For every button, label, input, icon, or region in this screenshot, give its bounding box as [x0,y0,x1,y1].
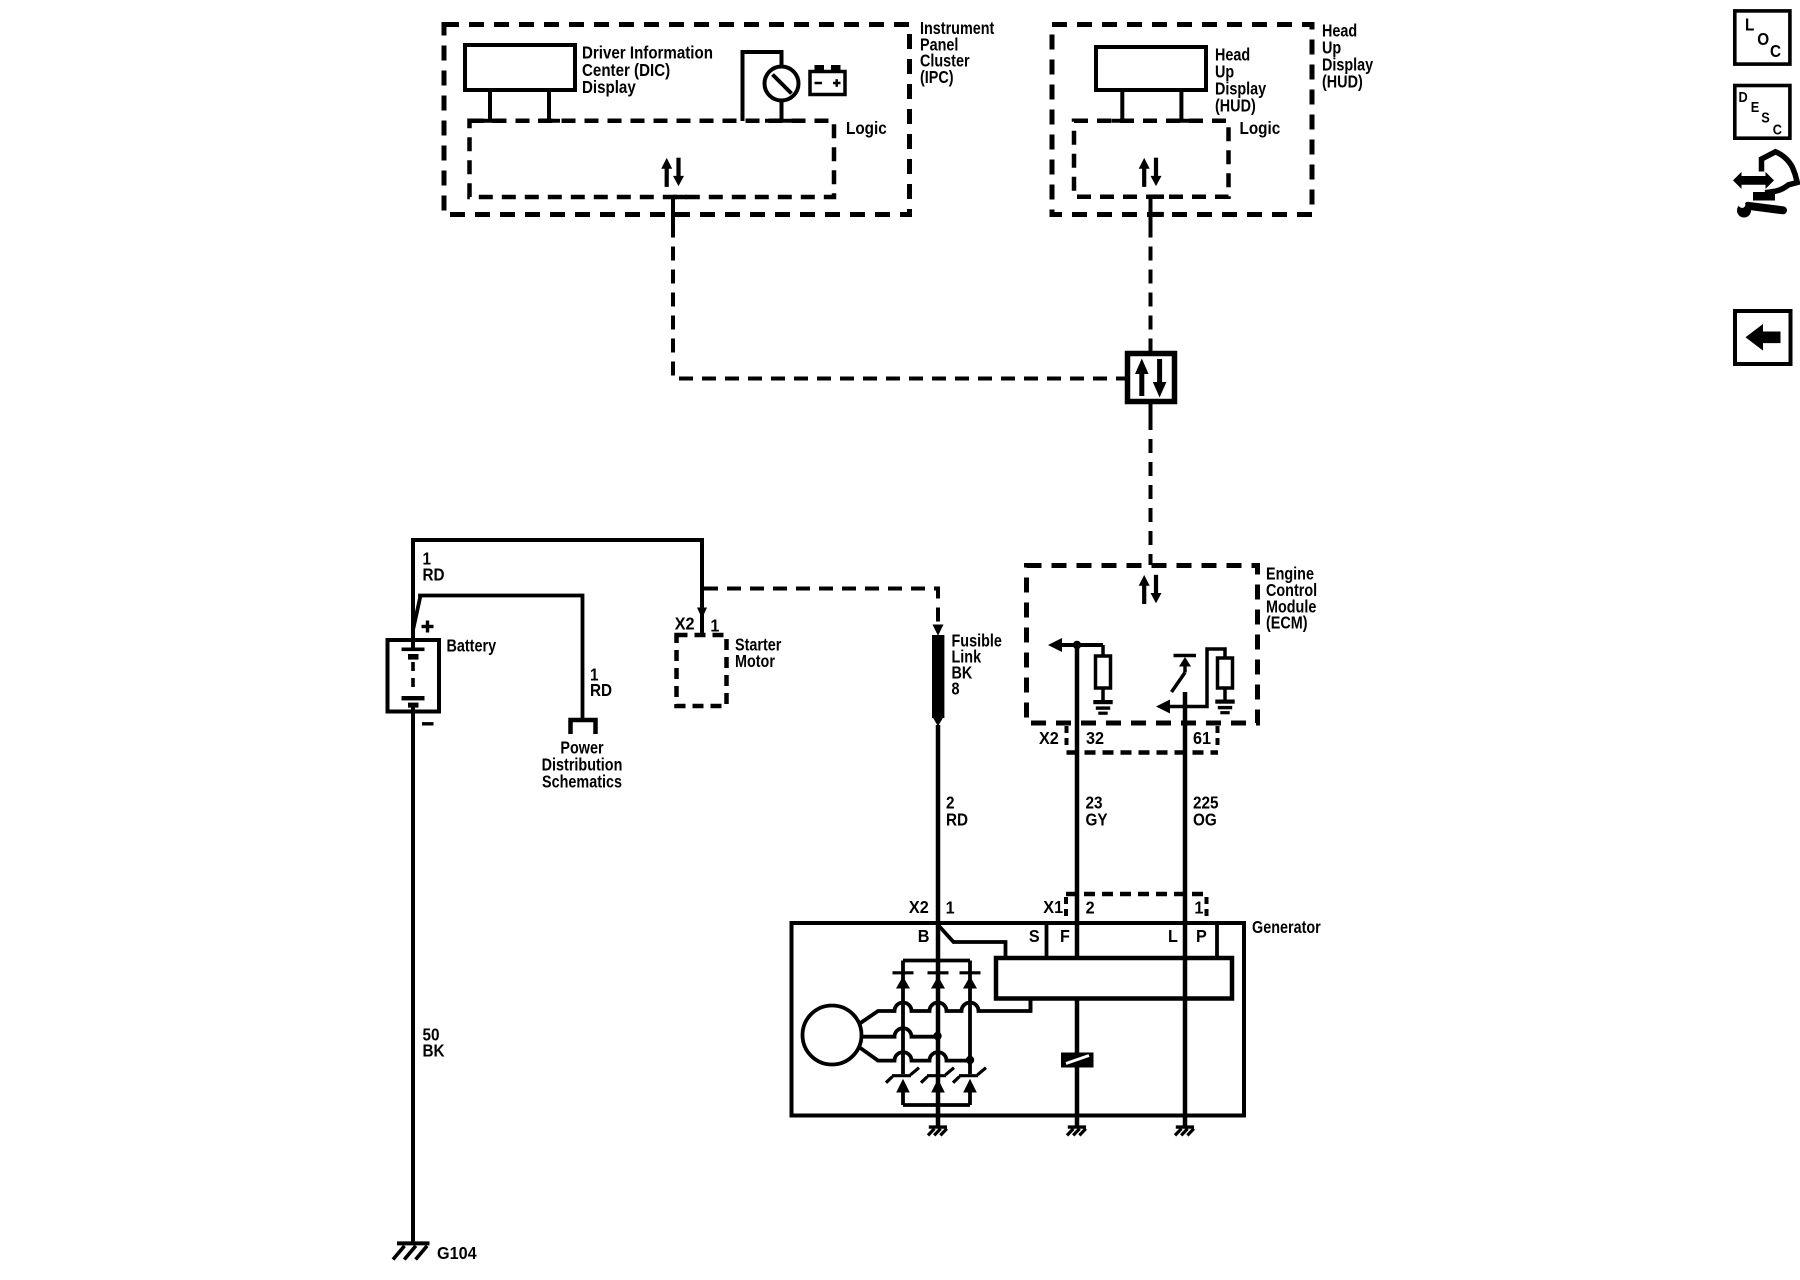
wire battery negative 50 BK to G104 [411,707,415,1242]
svg-text:C: C [1773,121,1782,138]
svg-text:X2: X2 [675,614,695,634]
label G104 [437,1243,477,1263]
wire B bus through rectifier [936,923,941,1116]
voltage regulator bar [996,958,1232,999]
svg-text:Motor: Motor [735,651,776,671]
label ECM [1266,564,1317,633]
wire battery positive to starter [411,540,702,633]
ECM internal: resistor R2 [1218,658,1233,688]
ground ECM right [1215,700,1234,704]
wire HUD leg 2 [1179,90,1183,121]
svg-text:Logic: Logic [1240,118,1281,138]
wire HUD leg 1 [1120,90,1124,121]
svg-text:1: 1 [710,616,719,636]
wire circuit 225 OG from ECM pin 61 [1183,692,1188,923]
generator terminal letters [918,926,930,946]
ground G104 [397,1241,430,1245]
ECM internal: right signal arrow [1156,700,1170,714]
stator winding phase 3 [859,1047,970,1061]
ground ECM left [1093,700,1112,704]
generator box [792,923,1245,1116]
wire data link to ECM (dashed) [1149,402,1153,417]
label DIC display [582,42,713,97]
stator circle [803,1006,862,1065]
generator terminal partitions [1045,923,1049,958]
ECM internal: left signal arrow [1048,638,1062,652]
ground generator case (B) [936,1116,941,1127]
module box ECM (Engine Control Module) [1027,566,1258,724]
DIC display [465,45,575,90]
ECM internal: driver switch [1174,654,1197,658]
rectifier bridge rails [903,959,970,963]
wire F terminal into regulator [1075,923,1080,958]
connector label X2 starter [675,614,695,634]
svg-text:G104: G104 [437,1243,477,1263]
svg-text:(ECM): (ECM) [1266,613,1308,633]
label HUD display [1215,45,1266,116]
svg-text:GY: GY [1086,809,1108,829]
zener diode D6 [959,1074,978,1077]
icon box back arrow [1735,311,1791,364]
label Logic [1240,118,1281,138]
wire B terminal to regulator (diagonal) [939,926,1006,958]
gauge (voltmeter) in IPC [743,52,782,121]
rotor brush element [1061,1053,1094,1068]
label pin 1 starter [710,616,719,636]
serial data arrows HUD [1139,158,1162,187]
svg-text:RD: RD [946,809,968,829]
wire DIC leg 2 [547,90,551,121]
label circuit 1 RD [423,548,445,584]
power distribution off-page symbol [571,720,596,734]
zener diode D5 [927,1074,946,1077]
wire serial data IPC to splice (dashed) [673,224,1119,379]
svg-text:BK: BK [423,1041,445,1061]
label Power Distribution Schematics [542,738,623,792]
fusible link BK 8 [933,625,944,636]
ECM internal: pull-up resistor R1 [1101,645,1105,656]
wire branch to power distribution [413,596,583,719]
stator winding phase 2 [862,1028,938,1037]
diode D2 [928,971,949,974]
battery B1 [411,540,415,648]
junction dot pin 32 [1073,641,1081,649]
svg-text:(HUD): (HUD) [1322,72,1363,92]
label pin 32 [1086,728,1104,748]
svg-text:1: 1 [1194,898,1203,918]
svg-text:B: B [918,926,930,946]
label Logic [846,118,887,138]
ground generator lamp [1183,1116,1188,1127]
svg-text:S: S [1029,926,1040,946]
battery plus sign [422,625,434,628]
svg-text:Display: Display [582,77,636,98]
svg-text:O: O [1757,29,1769,49]
wire HUD logic exit stub [1149,196,1153,224]
label circuit 2 RD [946,792,968,829]
svg-text:D: D [1739,88,1748,105]
icon box LOC [1735,11,1790,64]
wire serial data HUD to data link box (dashed) [1149,224,1153,340]
zener diode D4 [892,1074,911,1077]
svg-text:Generator: Generator [1252,917,1321,937]
logic box HUD [1074,121,1229,197]
svg-text:P: P [1196,926,1207,946]
connector X1 dashed box above generator [1066,892,1207,897]
svg-text:32: 32 [1086,728,1104,748]
svg-text:F: F [1060,926,1070,946]
label HUD outer [1322,21,1373,92]
label Starter Motor [735,635,782,671]
svg-text:S: S [1761,108,1770,125]
wire DIC leg 1 [488,90,492,121]
wire circuit 2 RD fusible link to generator B [936,725,941,923]
label Generator [1252,917,1321,937]
wire regulator sense to stator [1029,999,1033,1012]
icon jump arrows with wrench [1733,172,1774,189]
svg-text:L: L [1745,14,1754,34]
module box IPC (Instrument Panel Cluster) [444,25,910,215]
label circuit 1 RD branch [590,664,612,700]
svg-text:X2: X2 [1039,728,1059,748]
junction dot phase 3 [966,1056,974,1064]
diode D3 [960,971,981,974]
svg-text:8: 8 [952,679,960,699]
label circuit 50 BK [423,1024,445,1061]
wire starter to fusible link (dashed) [704,589,938,625]
connector labels above generator [909,897,929,917]
label Battery [447,636,497,656]
svg-text:Schematics: Schematics [542,772,622,792]
svg-text:(HUD): (HUD) [1215,96,1256,116]
svg-text:RD: RD [590,680,612,700]
label pin 61 [1193,728,1211,748]
HUD display [1096,47,1206,90]
svg-text:61: 61 [1193,728,1211,748]
data link communication box [1149,339,1153,354]
svg-text:E: E [1751,98,1760,115]
connector X2 of ECM [1065,726,1069,750]
junction dot phase 2 [933,1032,941,1040]
diode D1 [893,971,914,974]
starter motor box [677,635,727,706]
logic box IPC [470,121,835,197]
icon box DESC [1735,86,1790,139]
label IPC [920,19,995,88]
label connector X2 [1039,728,1059,748]
serial data arrows ECM [1139,575,1162,604]
arrow into starter [697,608,707,619]
serial data arrows IPC [661,158,684,187]
svg-text:C: C [1770,41,1781,61]
svg-text:L: L [1168,926,1178,946]
ground generator field [1075,1116,1080,1127]
svg-text:X2: X2 [909,897,929,917]
wire field F below regulator [1075,999,1080,1054]
svg-text:OG: OG [1193,809,1217,829]
wire circuit 23 GY from ECM pin 32 [1075,645,1080,923]
battery minus sign [422,722,434,725]
svg-text:1: 1 [946,898,955,918]
svg-text:2: 2 [1086,898,1095,918]
stator winding phase 1 [859,999,1031,1025]
svg-text:X1: X1 [1043,897,1063,917]
svg-text:Battery: Battery [447,636,497,656]
wire IPC logic exit stub [671,196,675,224]
battery charge indicator icon in IPC [810,72,845,95]
wire L terminal through generator [1183,923,1188,1116]
svg-text:RD: RD [423,564,445,584]
label Fusible Link BK 8 [952,631,1002,699]
module box HUD (Head Up Display) [1052,25,1312,215]
svg-text:Logic: Logic [846,118,887,138]
svg-text:(IPC): (IPC) [920,67,954,87]
